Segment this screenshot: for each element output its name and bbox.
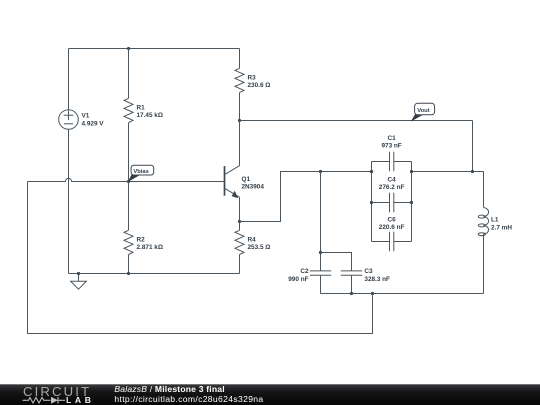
resistor R4 — [235, 230, 244, 254]
wire R3 bottom lead — [239, 93, 241, 121]
capacitor C1 — [372, 135, 412, 171]
svg-text:973 nF: 973 nF — [381, 143, 401, 150]
node ground stem junction — [77, 272, 80, 275]
svg-text:Q1: Q1 — [242, 176, 251, 183]
wire C3 bottom lead — [351, 275, 353, 293]
wire emitter branch to main row — [240, 172, 372, 222]
svg-text:C3: C3 — [364, 268, 373, 275]
wire base row with hop over V1 lead — [28, 178, 225, 181]
node cap box right main — [410, 170, 413, 173]
resistor R3 — [235, 68, 244, 92]
svg-text:253.5 Ω: 253.5 Ω — [248, 244, 271, 251]
footer bar — [0, 384, 540, 405]
wire R4 top lead — [239, 222, 241, 231]
wire C2 bottom lead — [320, 275, 322, 293]
wire V1 top lead — [68, 49, 70, 110]
wire R3 top lead — [239, 49, 241, 69]
wire L1 bottom lead — [483, 234, 485, 293]
node collector junction — [238, 119, 241, 122]
wire cap box left vertical — [371, 162, 373, 242]
logo waveform — [23, 397, 66, 404]
logo diode — [51, 397, 58, 404]
wire R2 bottom lead — [128, 255, 130, 274]
wire V1 bottom lead — [68, 129, 70, 273]
wire R4 bottom lead — [239, 255, 241, 274]
ground — [71, 274, 87, 290]
svg-text:R1: R1 — [137, 105, 146, 112]
node emitter junction — [238, 220, 241, 223]
svg-text:C1: C1 — [388, 135, 397, 142]
capacitor C2 — [288, 268, 331, 283]
wire ground row — [69, 273, 240, 275]
wire R2 top lead — [128, 182, 130, 231]
svg-text:V1: V1 — [82, 113, 90, 120]
node C2 top branch — [319, 251, 322, 254]
svg-text:Vbias: Vbias — [133, 169, 148, 175]
node cap box left C4 — [370, 201, 373, 204]
wire R1 bottom lead — [128, 123, 130, 182]
wire feedback loop — [28, 182, 373, 334]
svg-text:http://circuitlab.com/c28u624s: http://circuitlab.com/c28u624s329na — [114, 394, 263, 404]
capacitor C3 — [341, 268, 390, 283]
wire cap box right vertical — [411, 162, 413, 242]
label Vbias — [128, 165, 154, 182]
svg-text:C4: C4 — [388, 177, 397, 184]
svg-text:C2: C2 — [300, 268, 309, 275]
wire main row from cap box to L1 — [412, 171, 484, 173]
svg-text:276.2 nF: 276.2 nF — [379, 184, 405, 191]
capacitor C4 — [372, 177, 412, 213]
resistor R2 — [124, 230, 133, 254]
wire Vout row — [240, 120, 473, 122]
label Vout — [411, 103, 435, 121]
svg-text:L1: L1 — [491, 216, 499, 223]
node Vout main row junction — [471, 170, 474, 173]
svg-text:R2: R2 — [137, 236, 146, 243]
svg-text:2.871 kΩ: 2.871 kΩ — [137, 244, 163, 251]
capacitor C6 — [372, 217, 412, 252]
node Vbias junction — [127, 180, 130, 183]
node cap box right C4 — [410, 201, 413, 204]
svg-text:328.3 nF: 328.3 nF — [364, 276, 390, 283]
node C2 branch junction — [319, 170, 322, 173]
wire R1 top lead — [128, 49, 130, 99]
wire bottom row — [321, 293, 484, 295]
wire C2 column from main row — [320, 172, 322, 271]
svg-text:2.7 mH: 2.7 mH — [491, 224, 512, 231]
node R1 top junction — [127, 47, 130, 50]
wire C3 branch top — [321, 253, 352, 271]
svg-text:R4: R4 — [248, 236, 257, 243]
node cap box left main — [370, 170, 373, 173]
node R2 ground junction — [127, 272, 130, 275]
svg-text:230.6 Ω: 230.6 Ω — [248, 82, 271, 89]
svg-text:4.929 V: 4.929 V — [82, 120, 105, 127]
node C3 bottom junction — [350, 292, 353, 295]
resistor R1 — [124, 98, 133, 122]
svg-text:17.45 kΩ: 17.45 kΩ — [137, 112, 163, 119]
svg-text:Vout: Vout — [417, 108, 430, 114]
node feedback junction — [371, 292, 374, 295]
wire collector vertical — [239, 121, 241, 166]
wire top row — [69, 48, 240, 50]
svg-text:LAB: LAB — [66, 395, 91, 405]
wire Vout drop to main row — [472, 121, 474, 172]
transistor Q1 — [225, 166, 265, 199]
svg-text:C6: C6 — [388, 217, 397, 224]
svg-text:R3: R3 — [248, 75, 257, 82]
voltage source V1 — [59, 110, 105, 130]
svg-text:BalazsB / Milestone 3 final: BalazsB / Milestone 3 final — [114, 384, 224, 394]
svg-text:2N3904: 2N3904 — [242, 184, 265, 191]
svg-text:220.6 nF: 220.6 nF — [379, 224, 405, 231]
inductor L1 — [478, 172, 512, 236]
wire emitter vertical — [239, 197, 241, 221]
svg-text:990 nF: 990 nF — [288, 276, 308, 283]
